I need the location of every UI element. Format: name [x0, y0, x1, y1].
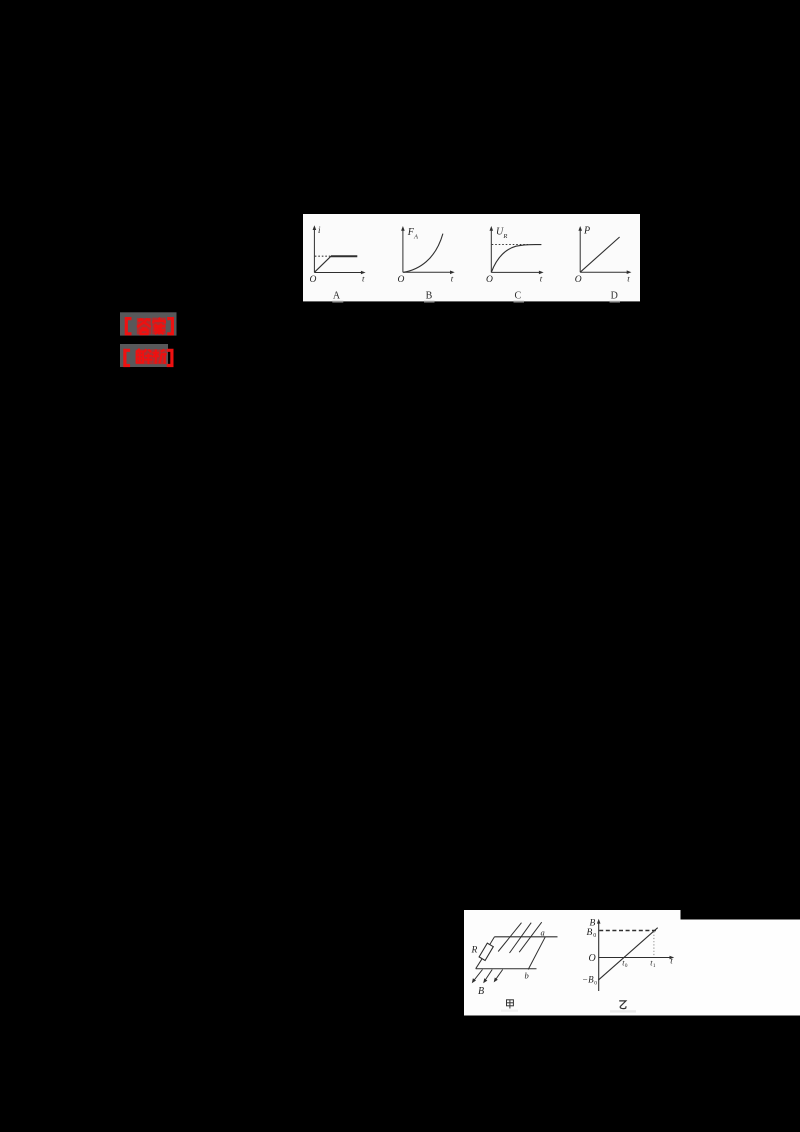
svg-text:O: O	[486, 275, 493, 285]
Bt graph x-arrowhead	[670, 956, 675, 960]
figure panel: loop diagram and B-t graph	[464, 910, 681, 1016]
loop right wire a-b	[528, 937, 545, 970]
choice underline D	[610, 301, 621, 303]
Bt graph y-arrowhead	[597, 919, 601, 924]
answer tag red text 【答案】	[137, 318, 166, 335]
graph C saturating curve	[491, 244, 541, 272]
choice underline A	[332, 301, 343, 303]
graph B axes	[403, 229, 452, 272]
Bt diagonal line	[598, 928, 658, 981]
Bt dotted drop t1	[653, 932, 655, 958]
svg-text:0: 0	[593, 933, 596, 939]
field arrow 1	[472, 970, 483, 984]
caption 甲	[507, 1000, 514, 1009]
svg-text:−B: −B	[582, 975, 594, 985]
choice underline C	[514, 301, 525, 303]
choice underline B	[424, 301, 435, 303]
svg-text:O: O	[310, 275, 317, 285]
svg-text:0: 0	[625, 963, 628, 969]
field line 1 upper	[498, 923, 521, 952]
Bt graph y-axis	[598, 922, 600, 992]
loop left wire lower	[476, 959, 482, 969]
svg-text:R: R	[502, 233, 507, 240]
svg-text:D: D	[611, 291, 618, 302]
graph B x-arrowhead	[450, 271, 455, 275]
graph D axes	[580, 229, 628, 272]
svg-text:P: P	[583, 226, 590, 237]
figure panel: four answer-choice graphs	[303, 214, 640, 301]
loop top wire	[495, 936, 558, 938]
svg-text:0: 0	[594, 981, 597, 987]
graph C dotted level	[492, 244, 528, 246]
graph D x-arrowhead	[627, 270, 632, 274]
graph A flat segment	[331, 255, 357, 257]
Bt graph x-axis	[599, 957, 672, 959]
field line 2 upper	[510, 923, 532, 953]
svg-text:B: B	[478, 986, 484, 997]
svg-text:O: O	[398, 275, 405, 285]
svg-text:A: A	[413, 234, 418, 241]
loop bottom wire	[476, 968, 537, 970]
caption 乙	[619, 1001, 626, 1009]
graph A x-arrowhead	[361, 271, 366, 275]
graph C axes	[491, 229, 540, 272]
caption smudge under 乙	[610, 1010, 636, 1012]
graph B curve	[403, 234, 443, 273]
loop left wire upper	[490, 937, 495, 945]
svg-text:C: C	[514, 291, 521, 302]
graph B y-arrowhead	[401, 226, 405, 231]
graph C x-arrowhead	[539, 271, 544, 275]
svg-text:B: B	[587, 928, 593, 938]
graph D line	[580, 237, 619, 272]
svg-text:1: 1	[653, 963, 656, 969]
svg-text:R: R	[471, 946, 478, 956]
resistor R	[479, 943, 493, 960]
field line 3 upper	[519, 922, 542, 952]
graph A rising segment	[314, 256, 331, 272]
analysis tag red text 【解析】	[136, 349, 166, 364]
svg-text:O: O	[575, 275, 582, 285]
answer tag highlight box	[120, 312, 177, 335]
svg-text:B: B	[426, 291, 433, 302]
graph A dotted level	[315, 255, 331, 257]
figure panel right extension	[680, 920, 800, 1016]
svg-text:b: b	[525, 971, 529, 981]
field arrow 3	[494, 970, 503, 983]
graph C y-arrowhead	[490, 226, 494, 231]
graph A y-arrowhead	[313, 225, 317, 230]
graph D y-arrowhead	[578, 226, 582, 231]
caption smudge under 甲	[501, 1010, 518, 1012]
graph A axes	[314, 229, 362, 273]
Bt dashed level B0	[599, 930, 656, 932]
svg-text:a: a	[541, 928, 545, 938]
analysis tag highlight box	[120, 344, 168, 367]
field arrow 2	[483, 970, 492, 984]
svg-text:A: A	[333, 291, 341, 302]
svg-text:O: O	[589, 953, 596, 964]
